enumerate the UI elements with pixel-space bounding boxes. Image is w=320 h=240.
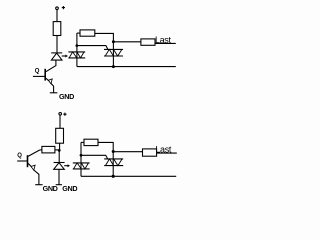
svg-text:Q: Q xyxy=(35,68,40,74)
svg-text:GND: GND xyxy=(43,184,58,193)
svg-text:GND: GND xyxy=(59,92,74,101)
svg-text:GND: GND xyxy=(62,184,77,193)
svg-text:Last: Last xyxy=(155,145,171,155)
svg-text:Last: Last xyxy=(155,35,171,45)
svg-text:Q: Q xyxy=(17,153,22,159)
